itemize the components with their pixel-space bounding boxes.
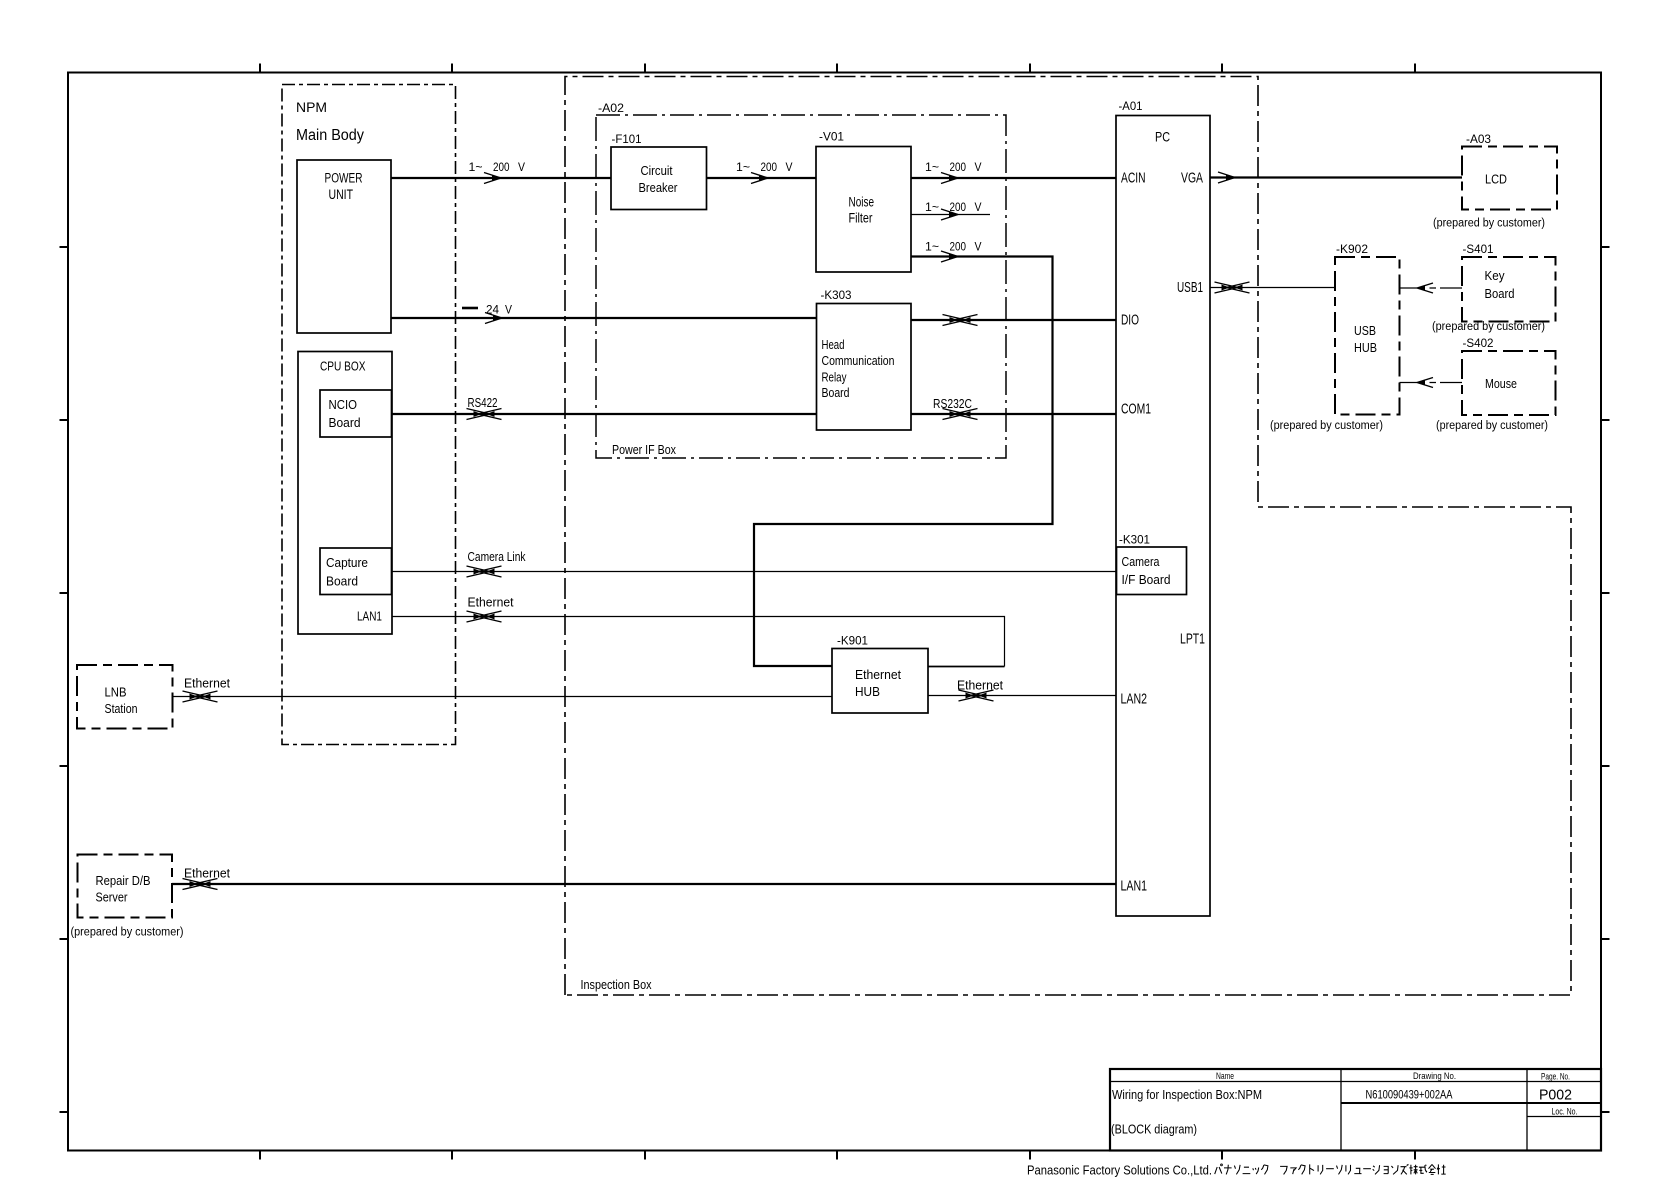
wire Ethernet repair server to PC LAN1	[172, 866, 1116, 890]
svg-text:-V01: -V01	[819, 130, 844, 144]
svg-text:-A03: -A03	[1466, 132, 1491, 146]
svg-text:(BLOCK diagram): (BLOCK diagram)	[1111, 1123, 1197, 1137]
enclosure A02 Power IF Box	[596, 101, 1006, 458]
svg-text:-A02: -A02	[598, 101, 624, 115]
svg-text:Drawing No.: Drawing No.	[1413, 1071, 1456, 1081]
svg-text:Main Body: Main Body	[296, 127, 364, 144]
svg-text:Ethernet: Ethernet	[184, 676, 230, 691]
svg-text:COM1: COM1	[1121, 401, 1151, 418]
svg-text:Head: Head	[822, 337, 845, 352]
wire USB1 PC to USB hub	[1210, 282, 1335, 293]
svg-text:-S402: -S402	[1463, 336, 1494, 350]
wire 200V noise filter to PC ACIN	[911, 160, 1116, 184]
svg-text:Ethernet: Ethernet	[184, 866, 230, 881]
svg-text:V: V	[975, 200, 982, 214]
svg-text:NPM: NPM	[296, 99, 327, 115]
wire Ethernet LNB station to ethernet hub	[173, 676, 833, 703]
svg-text:Wiring for Inspection Box:NPM: Wiring for Inspection Box:NPM	[1112, 1088, 1262, 1102]
svg-text:V: V	[975, 240, 982, 254]
svg-text:Filter: Filter	[849, 211, 873, 226]
svg-text:LCD: LCD	[1485, 172, 1507, 187]
svg-text:Relay: Relay	[822, 370, 847, 385]
repair D/B server	[71, 855, 184, 939]
svg-text:(prepared by customer): (prepared by customer)	[1270, 420, 1383, 432]
svg-text:Board: Board	[1485, 286, 1515, 301]
svg-text:200: 200	[493, 160, 510, 174]
LCD A03	[1433, 132, 1557, 230]
svg-text:V: V	[975, 160, 982, 174]
svg-text:DIO: DIO	[1121, 312, 1139, 329]
svg-text:LAN1: LAN1	[1121, 878, 1148, 895]
wire keyboard to USB hub	[1400, 283, 1463, 293]
svg-text:Repair D/B: Repair D/B	[96, 873, 151, 888]
noise filter V01	[816, 130, 911, 273]
mouse S402	[1436, 336, 1556, 432]
svg-text:LAN1: LAN1	[357, 609, 382, 624]
svg-text:-K901: -K901	[837, 634, 868, 648]
circuit breaker F101	[611, 132, 707, 210]
USB hub K902	[1270, 242, 1400, 432]
svg-text:-K902: -K902	[1336, 242, 1368, 256]
power unit	[297, 160, 391, 333]
svg-text:V: V	[505, 303, 512, 317]
svg-text:Board: Board	[326, 574, 358, 589]
svg-text:V: V	[786, 160, 793, 174]
svg-text:-F101: -F101	[612, 132, 642, 146]
wire 24V power unit to K303	[391, 303, 817, 324]
svg-text:RS232C: RS232C	[933, 396, 972, 411]
CPU box	[298, 352, 392, 635]
svg-text:Panasonic Factory Solutions Co: Panasonic Factory Solutions Co.,Ltd.	[1027, 1164, 1212, 1178]
svg-text:1~: 1~	[736, 160, 750, 174]
svg-text:P002: P002	[1539, 1087, 1572, 1104]
svg-text:RS422: RS422	[468, 395, 498, 410]
wire 200V power unit to circuit breaker	[391, 160, 611, 184]
svg-text:Station: Station	[105, 701, 138, 716]
svg-text:Noise: Noise	[849, 195, 875, 210]
svg-text:VGA: VGA	[1181, 170, 1203, 187]
wire Camera Link capture board to camera I/F board	[392, 549, 1117, 577]
svg-text:Key: Key	[1485, 268, 1505, 283]
svg-text:Ethernet: Ethernet	[855, 667, 901, 682]
svg-text:(prepared by customer): (prepared by customer)	[71, 927, 184, 939]
svg-text:Circuit: Circuit	[641, 164, 673, 178]
keyboard S401	[1432, 242, 1556, 333]
camera I/F board K301	[1117, 533, 1187, 595]
svg-text:V: V	[518, 160, 525, 174]
svg-text:N610090439+002AA: N610090439+002AA	[1366, 1088, 1453, 1102]
wire 200V noise filter to ethernet hub	[754, 240, 1053, 667]
title block	[1110, 1069, 1601, 1151]
svg-text:-A01: -A01	[1119, 99, 1143, 113]
svg-text:Ethernet: Ethernet	[957, 678, 1003, 693]
svg-text:I/F Board: I/F Board	[1122, 572, 1171, 587]
svg-text:UNIT: UNIT	[329, 187, 354, 202]
svg-text:Camera Link: Camera Link	[468, 549, 526, 564]
svg-text:1~: 1~	[469, 160, 483, 174]
enclosure NPM Main Body	[282, 85, 456, 745]
wire RS422 NCIO board to K303	[392, 395, 817, 420]
svg-text:Server: Server	[96, 890, 129, 905]
ethernet hub K901	[832, 634, 928, 714]
svg-text:HUB: HUB	[855, 684, 880, 699]
company footer text	[1027, 1164, 1446, 1178]
wire RS232C K303 to PC COM1	[911, 396, 1116, 420]
svg-text:LNB: LNB	[105, 685, 127, 700]
enclosure Inspection Box	[565, 77, 1571, 996]
svg-text:Page. No.: Page. No.	[1541, 1072, 1570, 1082]
svg-text:Board: Board	[329, 415, 361, 430]
wire DIO K303 to PC DIO	[911, 315, 1116, 326]
svg-text:Power IF Box: Power IF Box	[612, 442, 676, 457]
svg-text:-K303: -K303	[821, 288, 852, 302]
svg-text:NCIO: NCIO	[329, 397, 358, 412]
svg-text:USB: USB	[1354, 323, 1376, 338]
svg-text:200: 200	[950, 200, 967, 214]
NCIO board	[320, 390, 392, 437]
svg-text:HUB: HUB	[1354, 340, 1377, 355]
svg-text:Mouse: Mouse	[1485, 376, 1517, 391]
svg-text:Board: Board	[822, 385, 850, 400]
head communication relay board K303	[817, 288, 912, 430]
svg-text:USB1: USB1	[1177, 279, 1203, 296]
svg-text:Inspection Box: Inspection Box	[581, 977, 652, 992]
wire 200V noise filter stub	[911, 200, 990, 220]
svg-text:1~: 1~	[925, 160, 939, 174]
svg-text:PC: PC	[1155, 129, 1170, 145]
LNB station	[77, 665, 173, 729]
svg-text:LAN2: LAN2	[1121, 691, 1148, 708]
svg-text:ACIN: ACIN	[1121, 170, 1146, 187]
svg-text:-K301: -K301	[1119, 533, 1150, 547]
svg-text:200: 200	[761, 160, 778, 174]
svg-text:1~: 1~	[925, 240, 939, 254]
svg-text:Loc. No.: Loc. No.	[1552, 1107, 1578, 1117]
capture board	[320, 548, 392, 595]
svg-text:(prepared by customer): (prepared by customer)	[1433, 218, 1545, 230]
PC A01	[1116, 99, 1210, 916]
svg-text:CPU BOX: CPU BOX	[320, 360, 366, 374]
wire mouse to USB hub	[1400, 378, 1463, 388]
svg-text:(prepared by customer): (prepared by customer)	[1436, 420, 1548, 432]
wire Ethernet ethernet hub to PC LAN2	[928, 678, 1116, 702]
svg-text:LPT1: LPT1	[1180, 631, 1205, 648]
wire Ethernet CPU LAN1 to ethernet hub	[392, 595, 1005, 667]
svg-text:24: 24	[486, 303, 499, 317]
svg-text:-S401: -S401	[1463, 242, 1494, 256]
svg-text:Communication: Communication	[822, 353, 895, 368]
svg-text:1~: 1~	[925, 200, 939, 214]
wire 200V circuit breaker to noise filter	[707, 160, 817, 184]
svg-text:Name: Name	[1216, 1071, 1234, 1081]
svg-text:Ethernet: Ethernet	[468, 595, 514, 610]
svg-text:200: 200	[950, 240, 967, 254]
svg-text:POWER: POWER	[325, 171, 363, 186]
svg-text:200: 200	[950, 160, 967, 174]
svg-text:(prepared by customer): (prepared by customer)	[1432, 321, 1545, 333]
svg-text:Capture: Capture	[326, 555, 368, 570]
svg-text:Breaker: Breaker	[639, 181, 678, 195]
wire VGA PC to LCD	[1210, 172, 1462, 183]
svg-text:Camera: Camera	[1122, 554, 1161, 569]
